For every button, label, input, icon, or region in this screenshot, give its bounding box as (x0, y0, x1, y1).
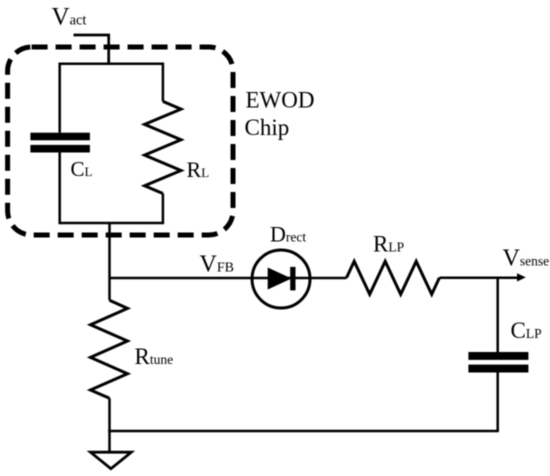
svg-text:Vact: Vact (52, 4, 87, 31)
svg-text:Drect: Drect (270, 222, 306, 247)
svg-text:Chip: Chip (245, 115, 290, 140)
svg-text:Rtune: Rtune (135, 344, 174, 369)
svg-text:RLP: RLP (373, 232, 404, 257)
svg-text:RL: RL (187, 157, 210, 182)
svg-text:EWOD: EWOD (246, 88, 315, 113)
svg-text:CL: CL (71, 157, 93, 181)
svg-text:CLP: CLP (511, 318, 542, 343)
svg-text:Vsense: Vsense (503, 245, 550, 271)
svg-text:VFB: VFB (200, 252, 234, 278)
